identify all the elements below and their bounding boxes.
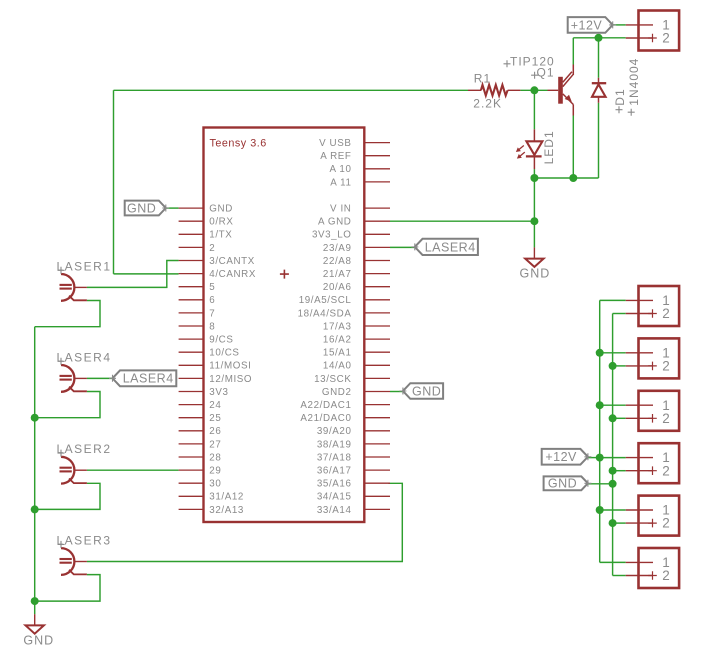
net label LASER4 (left) [109,370,176,386]
svg-text:A REF: A REF [320,151,351,162]
wire to Teensy pin 4/CANRX [114,273,179,275]
connector J2 [626,286,679,326]
svg-text:29: 29 [209,466,221,477]
pin 28 [179,452,222,463]
pin A22/DAC1 [300,400,390,411]
svg-text:21/A7: 21/A7 [323,269,352,280]
transistor Q1 TIP120 [504,54,574,115]
svg-text:2.2K: 2.2K [473,97,502,111]
svg-text:5: 5 [209,282,215,293]
wire Q1 collector up to +12V net [572,38,574,65]
pin 34/A15 [317,492,390,503]
svg-text:2: 2 [209,243,215,254]
svg-text:2: 2 [662,306,670,321]
junction +12V bus [596,401,604,409]
svg-text:12/MISO: 12/MISO [209,374,252,385]
svg-text:39/A20: 39/A20 [317,426,352,437]
junction LASER3 pin2 at GND bus [31,597,39,605]
pin 8 [179,321,216,332]
pin A 10 [329,164,390,175]
svg-text:LASER4: LASER4 [123,372,174,386]
svg-text:10/CS: 10/CS [209,348,239,359]
pin 9/CS [179,335,234,346]
pin 38/A19 [317,439,390,450]
net label GND (bus) [544,476,592,490]
net label GND (right of Teensy) [399,383,443,399]
pin 3V3 [179,387,229,398]
wire +12V bus to connector J4 pin 1 [600,404,626,406]
pin 35/A16 [317,479,390,490]
svg-text:9/CS: 9/CS [209,335,233,346]
junction D1 cathode at +12V net [595,34,603,42]
svg-text:8: 8 [209,321,215,332]
wire base node down to LED1 [533,90,535,129]
pin 3/CANTX [179,256,255,267]
wire AGND to GND node [390,220,534,222]
svg-text:13/SCK: 13/SCK [314,374,351,385]
svg-text:GND: GND [209,204,233,215]
pin 15/A1 [323,348,390,359]
wire +12V flag to connector pin 1 [613,24,626,26]
pin 0/RX [179,217,234,228]
svg-text:Q1: Q1 [537,66,555,80]
wire LASER2 pin2 to GND bus [35,483,100,509]
wire LASER3 pin2 to GND bus [35,575,100,602]
pin 32/A13 [179,505,244,516]
junction LASER4 pin2 at GND bus [31,414,39,422]
pin 5 [179,282,216,293]
svg-text:D1: D1 [613,88,627,105]
wire 23/A9 to LASER4 label [390,246,415,248]
svg-text:V IN: V IN [330,204,351,215]
pin 30 [179,479,222,490]
svg-text:2: 2 [662,31,670,46]
svg-text:3V3: 3V3 [209,387,228,398]
svg-text:3V3_LO: 3V3_LO [312,230,352,241]
wire Q1 emitter down [572,116,574,179]
pin 26 [179,426,222,437]
junction AGND node [530,217,538,225]
pin GND [179,204,233,215]
junction LED cathode / emitter node [530,174,538,182]
wire +12V bus to connector J5 pin 1 [600,457,626,459]
pin V USB [319,138,390,149]
svg-text:GND2: GND2 [322,387,352,398]
svg-text:24: 24 [209,400,221,411]
pin 18/A4/SDA [298,308,390,319]
connector J5 [626,443,679,483]
connector J4 [626,391,679,431]
IC U1 Teensy 3.6 body [204,128,365,523]
svg-text:A 11: A 11 [330,177,351,188]
wire D1 cathode up to +12V net [598,38,600,78]
svg-text:A 10: A 10 [329,164,351,175]
svg-text:33/A14: 33/A14 [317,505,352,516]
svg-text:17/A3: 17/A3 [323,321,352,332]
connector LASER2 [57,442,112,483]
svg-text:GND: GND [127,201,156,215]
wire +12V net to connector pin 2 [573,37,625,39]
wire left GND bus vertical [34,327,36,615]
wire LASER1 pin1 to 3/CANTX [87,261,179,288]
svg-text:18/A4/SDA: 18/A4/SDA [298,308,352,319]
pin 21/A7 [323,269,390,280]
wire +12V bus vertical (connector pins 1) [599,300,601,562]
pin 29 [179,466,222,477]
svg-text:0/RX: 0/RX [209,217,233,228]
pin 11/MOSI [179,361,252,372]
wire GND bus to connector J7 pin 2 [613,575,626,577]
wire LASER1 pin2 down to GND bus [35,301,100,327]
svg-text:14/A0: 14/A0 [323,361,352,372]
svg-text:1N4004: 1N4004 [627,58,641,106]
connector J6 [626,496,679,536]
svg-text:26: 26 [209,426,221,437]
wire GND bus to connector J2 pin 2 [613,313,626,315]
pin 27 [179,439,222,450]
pin 2 [179,243,216,254]
svg-text:2: 2 [662,568,670,583]
wire LED1 cathode down to GND [533,169,535,247]
wire GND bus to connector J4 pin 2 [613,417,626,419]
pin 39/A20 [317,426,390,437]
svg-text:37/A18: 37/A18 [317,452,352,463]
pin 31/A12 [179,492,244,503]
svg-text:30: 30 [209,479,221,490]
wire LASER3 pin1 to pin 35/A16 [87,483,402,561]
wire +12V bus to connector J6 pin 1 [600,509,626,511]
svg-text:35/A16: 35/A16 [317,479,352,490]
pin 7 [179,308,216,319]
svg-text:LASER1: LASER1 [57,259,112,273]
wire LASER4 pin2 to GND bus [35,392,100,418]
junction GND bus [609,414,617,422]
svg-text:15/A1: 15/A1 [323,348,352,359]
wire GND flag to bus [588,483,613,485]
svg-text:1/TX: 1/TX [209,230,232,241]
junction GND bus [609,519,617,527]
wire vertical down-left column [113,90,115,274]
junction GND bus [609,467,617,475]
pin 10/CS [179,348,240,359]
connector LASER3 [57,534,112,575]
wire +12V bus to connector J2 pin 1 [600,299,626,301]
junction +12V bus [596,454,604,462]
connector LASER4 [57,350,112,391]
ground GND (near AGND) [520,247,551,280]
svg-text:2: 2 [662,463,670,478]
pin 22/A8 [323,256,390,267]
pin 33/A14 [317,505,390,516]
net label +12V (top) [568,17,617,33]
svg-text:31/A12: 31/A12 [209,492,244,503]
svg-text:19/A5/SCL: 19/A5/SCL [299,295,352,306]
svg-text:LASER2: LASER2 [57,442,112,456]
svg-text:V USB: V USB [319,138,351,149]
svg-text:3/CANTX: 3/CANTX [209,256,255,267]
svg-text:LASER3: LASER3 [57,534,112,548]
wire +12V bus to connector J3 pin 1 [600,352,626,354]
junction +12V bus [596,349,604,357]
pin 20/A6 [323,282,390,293]
connector LASER1 [57,259,112,300]
wire GND bus vertical (connector pins 2) [612,314,614,576]
svg-text:27: 27 [209,439,221,450]
ground GND (bottom left) [23,614,54,647]
pin 23/A9 [323,243,390,254]
wire D1 anode down to emitter node [598,103,600,178]
svg-text:2: 2 [662,411,670,426]
connector J3 [626,338,679,378]
svg-text:36/A17: 36/A17 [317,466,352,477]
svg-text:A22/DAC1: A22/DAC1 [300,400,351,411]
svg-text:16/A2: 16/A2 [323,335,352,346]
pin 3V3_LO [312,230,390,241]
svg-text:23/A9: 23/A9 [323,243,352,254]
svg-text:GND: GND [23,633,54,647]
svg-text:+12V: +12V [545,450,577,464]
svg-text:2: 2 [662,516,670,531]
pin 37/A18 [317,452,390,463]
pin 1/TX [179,230,233,241]
net label LASER4 (right of Teensy) [411,239,478,255]
svg-text:GND: GND [412,384,441,398]
pin 14/A0 [323,361,390,372]
junction base node [530,86,538,94]
svg-text:28: 28 [209,452,221,463]
svg-text:7: 7 [209,308,215,319]
svg-text:20/A6: 20/A6 [323,282,352,293]
pin 6 [179,295,216,306]
junction +12V bus [596,506,604,514]
junction GND flag at bus [609,480,617,488]
wire long horizontal to R1 [114,89,469,91]
junction GND bus [609,362,617,370]
wire base net from R1 to Q1 base [520,89,547,91]
wire LASER2 pin1 to pin 29 [87,469,179,471]
svg-text:11/MOSI: 11/MOSI [209,361,251,372]
wire GND2 to GND label [390,391,403,393]
svg-text:34/A15: 34/A15 [317,492,352,503]
svg-text:R1: R1 [474,71,491,85]
pin A REF [320,151,390,162]
pin 12/MISO [179,374,253,385]
svg-text:25: 25 [209,413,221,424]
pin A GND [318,217,390,228]
svg-text:A GND: A GND [318,217,352,228]
svg-text:6: 6 [209,295,215,306]
pin 13/SCK [314,374,390,385]
svg-text:Teensy 3.6: Teensy 3.6 [210,138,267,150]
LED LED1 [516,129,556,169]
svg-text:2: 2 [662,359,670,374]
pin 24 [179,400,222,411]
svg-text:38/A19: 38/A19 [317,439,352,450]
pin 17/A3 [323,321,390,332]
pin A 11 [330,177,390,188]
svg-text:LASER4: LASER4 [57,350,112,364]
resistor R1 2.2K [468,71,520,110]
svg-text:22/A8: 22/A8 [323,256,352,267]
svg-text:A21/DAC0: A21/DAC0 [300,413,351,424]
svg-text:LED1: LED1 [542,130,556,164]
pin 25 [179,413,222,424]
net label +12V (bus) [542,449,592,465]
wire +12V bus to connector J7 pin 1 [600,561,626,563]
wire +12V flag to bus [588,457,600,459]
wire LASER4 pin1 to label [87,377,113,379]
pin 19/A5/SCL [299,295,390,306]
wire emitter node horizontal [534,177,598,179]
pin V IN [330,204,390,215]
svg-text:+12V: +12V [571,18,603,32]
svg-text:LASER4: LASER4 [425,240,476,254]
pin 36/A17 [317,466,390,477]
wire GND flag to Teensy GND pin [166,207,179,209]
svg-text:32/A13: 32/A13 [209,505,244,516]
wire GND bus to connector J5 pin 2 [613,470,626,472]
svg-text:GND: GND [548,477,577,491]
junction LASER2 pin2 at GND bus [31,505,39,513]
connector J7 [626,548,679,588]
svg-text:4/CANRX: 4/CANRX [209,269,256,280]
junction emitter node [569,174,577,182]
diode D1 1N4004 [592,58,641,116]
pin GND2 [322,387,390,398]
wire GND bus to connector J6 pin 2 [613,522,626,524]
pin A21/DAC0 [300,413,390,424]
pin 4/CANRX [179,269,256,280]
svg-text:GND: GND [520,267,551,281]
wire GND bus to connector J3 pin 2 [613,365,626,367]
connector J1 (power in) [626,11,679,51]
net label GND (Teensy left) [125,201,170,216]
pin 16/A2 [323,335,390,346]
